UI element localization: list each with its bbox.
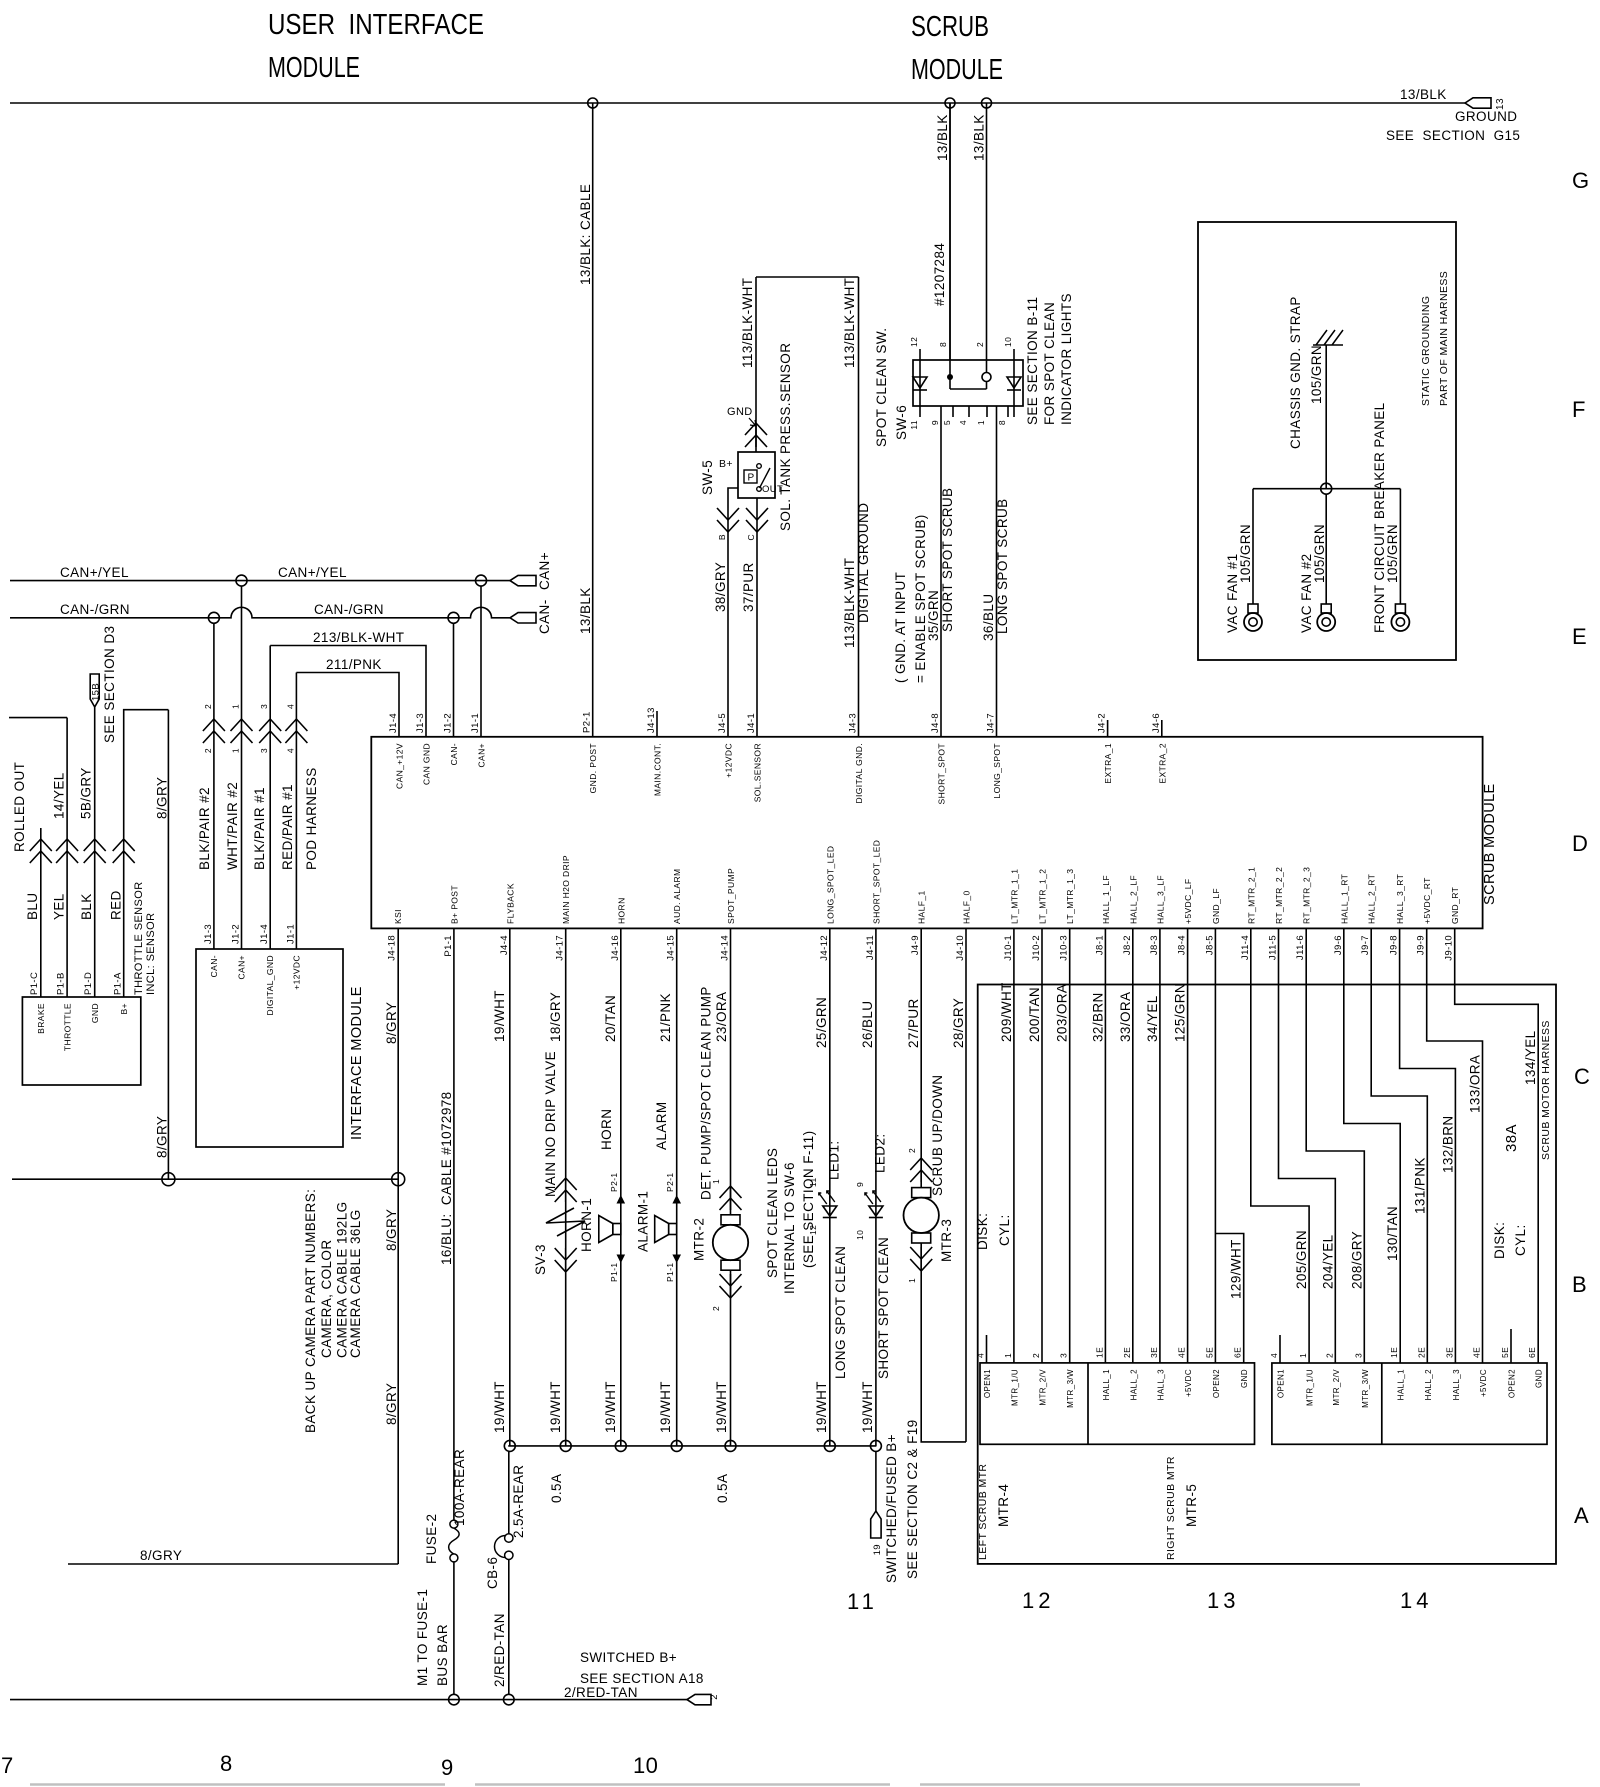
SW-6 pin 10 stub (1013, 349, 1015, 360)
diode SW-6 left (919, 360, 921, 417)
svg-text:8: 8 (997, 420, 1007, 425)
svg-text:13/BLK: CABLE: 13/BLK: CABLE (578, 184, 593, 285)
svg-text:B+ POST: B+ POST (449, 885, 459, 924)
svg-text:13/BLK: 13/BLK (972, 114, 987, 161)
svg-text:SHORT_SPOT: SHORT_SPOT (937, 743, 947, 804)
svg-text:6E: 6E (1233, 1347, 1243, 1358)
svg-text:BLK/PAIR #1: BLK/PAIR #1 (252, 787, 267, 870)
junction bus cb6 (504, 1694, 515, 1705)
svg-text:38A: 38A (1503, 1124, 1520, 1152)
wire 16/BLU cable (453, 929, 455, 1520)
chassis grounding box (1198, 222, 1456, 660)
svg-text:SHORT SPOT SCRUB: SHORT SPOT SCRUB (940, 488, 955, 632)
svg-text:37/PUR: 37/PUR (741, 562, 756, 612)
svg-text:P1-B: P1-B (56, 972, 67, 995)
svg-text:CAN-: CAN- (537, 599, 552, 634)
svg-text:DIGITAL_GND: DIGITAL_GND (265, 955, 275, 1015)
svg-text:14/YEL: 14/YEL (52, 772, 67, 819)
svg-text:J4-7: J4-7 (986, 713, 997, 733)
fuse FUSE-2 (450, 1520, 458, 1528)
SW-6 internal node open (982, 373, 991, 382)
throttle sensor box (22, 997, 140, 1085)
svg-text:HALL_1_RT: HALL_1_RT (1339, 874, 1349, 924)
svg-text:4E: 4E (1177, 1347, 1187, 1358)
speaker HORN-1 (613, 1224, 621, 1235)
svg-text:19/WHT: 19/WHT (492, 1381, 507, 1433)
svg-text:19: 19 (872, 1544, 883, 1555)
svg-text:SEE SECTION A18: SEE SECTION A18 (580, 1671, 704, 1686)
wire drop VAC FAN 2 (1325, 494, 1327, 604)
svg-text:P2-1: P2-1 (609, 1172, 619, 1192)
svg-text:J4-13: J4-13 (646, 707, 657, 733)
svg-text:P2-1: P2-1 (582, 711, 593, 733)
junction top bus at GND POST wire (588, 98, 598, 108)
junction bus sv3 (560, 1440, 571, 1451)
svg-text:SHORT SPOT CLEAN: SHORT SPOT CLEAN (876, 1237, 891, 1379)
junction bus horn (615, 1440, 626, 1451)
svg-text:MTR_1/U: MTR_1/U (1306, 1369, 1315, 1406)
switch SW-5 box (738, 452, 775, 498)
svg-text:HALL_1: HALL_1 (1397, 1369, 1406, 1400)
svg-text:19/WHT: 19/WHT (603, 1381, 618, 1433)
svg-text:HALL_2: HALL_2 (1129, 1369, 1138, 1400)
svg-text:8/GRY: 8/GRY (155, 777, 170, 819)
junction CAN+ left (236, 575, 247, 586)
wire 8/GRY KSI vertical (397, 929, 399, 1564)
svg-text:19/WHT: 19/WHT (860, 1381, 875, 1433)
svg-text:CAMERA CABLE 36LG: CAMERA CABLE 36LG (348, 1209, 363, 1358)
svg-text:2: 2 (975, 342, 985, 347)
svg-text:19/WHT: 19/WHT (492, 990, 507, 1042)
svg-text:J11-4: J11-4 (1240, 935, 1251, 960)
svg-text:130/TAN: 130/TAN (1385, 1206, 1400, 1261)
svg-text:CAN+: CAN+ (477, 743, 487, 768)
svg-text:4: 4 (976, 1353, 986, 1358)
svg-text:2E: 2E (1122, 1347, 1132, 1358)
svg-text:ALARM: ALARM (654, 1101, 669, 1150)
svg-text:J4-8: J4-8 (930, 713, 941, 733)
svg-text:J4-10: J4-10 (955, 935, 966, 961)
stub OPEN1 MTR-5 (1279, 1335, 1281, 1363)
wire pod pair2 wht (241, 586, 243, 719)
svg-text:8/GRY: 8/GRY (155, 1116, 170, 1158)
junction bus flyback (504, 1440, 515, 1451)
svg-text:J4-17: J4-17 (555, 935, 566, 961)
svg-text:3: 3 (1059, 1353, 1069, 1358)
svg-text:J10-2: J10-2 (1031, 935, 1042, 961)
svg-text:2: 2 (711, 1306, 721, 1311)
svg-text:4: 4 (286, 748, 296, 753)
svg-text:HALL_2_RT: HALL_2_RT (1367, 874, 1377, 924)
wire 113/BLK-WHT top link (756, 276, 859, 278)
svg-text:BLK: BLK (79, 893, 94, 920)
svg-text:2: 2 (1324, 1353, 1334, 1358)
svg-text:+5VDC_RT: +5VDC_RT (1422, 877, 1432, 924)
svg-text:HALL_1_LF: HALL_1_LF (1101, 875, 1111, 924)
wire 125/GRN to MTR-4 (1187, 929, 1189, 1363)
bottom border dashed line (30, 1783, 1360, 1786)
svg-text:SEE SECTION C2 & F19: SEE SECTION C2 & F19 (905, 1419, 920, 1579)
wire 32/BRN to MTR-4 (1104, 929, 1106, 1363)
connector box MTR-4 (980, 1363, 1255, 1444)
svg-text:MTR-5: MTR-5 (1184, 1484, 1199, 1527)
svg-text:GND: GND (90, 1003, 100, 1023)
svg-text:2/RED-TAN: 2/RED-TAN (492, 1613, 507, 1687)
led LED1 (823, 1206, 837, 1216)
scrub module box (371, 737, 1482, 929)
svg-text:P1-1: P1-1 (609, 1262, 619, 1282)
wire 13/BLK to SW-6 pin 8 (949, 103, 951, 360)
wire CAN-/GRN horizontal with hops (10, 607, 510, 618)
svg-text:HALF_0: HALF_0 (962, 890, 972, 924)
svg-text:J8-1: J8-1 (1094, 935, 1105, 955)
svg-text:13: 13 (1207, 1588, 1239, 1613)
svg-text:200/TAN: 200/TAN (1027, 987, 1042, 1042)
svg-text:E: E (1572, 624, 1587, 649)
svg-text:J4-9: J4-9 (910, 935, 921, 955)
svg-text:CAN-: CAN- (209, 955, 219, 977)
junction bus alarm (671, 1440, 682, 1451)
svg-text:HALL_2_LF: HALL_2_LF (1128, 875, 1138, 924)
svg-text:OPEN2: OPEN2 (1508, 1369, 1517, 1398)
chevron SV-3 top (555, 1178, 577, 1202)
svg-text:FOR SPOT CLEAN: FOR SPOT CLEAN (1042, 302, 1057, 425)
svg-text:3: 3 (1353, 1353, 1363, 1358)
SW-6 internal node filled (947, 374, 953, 380)
svg-text:HALL_3_LF: HALL_3_LF (1155, 875, 1165, 924)
svg-text:HALL_1: HALL_1 (1102, 1369, 1111, 1400)
svg-text:10: 10 (633, 1753, 658, 1778)
motor MTR-2 (721, 1215, 740, 1225)
svg-text:23/ORA: 23/ORA (714, 992, 729, 1042)
svg-text:BLK/PAIR #2: BLK/PAIR #2 (197, 787, 212, 870)
svg-text:BRAKE: BRAKE (36, 1003, 46, 1034)
svg-text:+5VDC: +5VDC (1184, 1369, 1193, 1397)
junction chassis ground node (1321, 483, 1332, 494)
svg-text:J4-1: J4-1 (746, 713, 757, 733)
wire 132/BRN step (1400, 929, 1456, 1363)
svg-text:#1207284: #1207284 (932, 243, 947, 306)
svg-text:J4-16: J4-16 (610, 935, 621, 961)
wire 8/GRY long vertical (167, 710, 169, 1179)
wire 33/ORA to MTR-4 (1132, 929, 1134, 1363)
svg-text:CAN-/GRN: CAN-/GRN (314, 602, 384, 617)
svg-text:CYL:: CYL: (997, 1214, 1012, 1246)
junction 8/GRY mid left (162, 1173, 175, 1186)
SW-6 bottom stub pin4 (968, 406, 970, 417)
svg-text:CYL:: CYL: (1513, 1224, 1528, 1256)
svg-text:LONG SPOT CLEAN: LONG SPOT CLEAN (833, 1246, 848, 1379)
svg-text:11: 11 (847, 1589, 878, 1614)
svg-text:HALL_3: HALL_3 (1156, 1369, 1165, 1400)
SW-6 bottom stub pin5 (952, 406, 954, 417)
svg-text:J11-5: J11-5 (1268, 935, 1279, 960)
ring terminal VAC FAN 1 (1248, 604, 1258, 613)
svg-text:HORN: HORN (599, 1109, 614, 1150)
svg-text:MTR_2/V: MTR_2/V (1039, 1369, 1048, 1406)
svg-text:7: 7 (1, 1753, 14, 1778)
svg-text:9: 9 (855, 1182, 865, 1187)
svg-text:BACK UP CAMERA PART NUMBERS:: BACK UP CAMERA PART NUMBERS: (303, 1189, 318, 1433)
SW-6 bottom stub pin8b (1007, 406, 1009, 417)
svg-text:LT_MTR_1_2: LT_MTR_1_2 (1038, 869, 1048, 924)
svg-text:8/GRY: 8/GRY (384, 1383, 399, 1425)
svg-text:1: 1 (711, 1179, 721, 1184)
svg-text:HALL_3_RT: HALL_3_RT (1395, 874, 1405, 924)
svg-text:132/BRN: 132/BRN (1440, 1115, 1455, 1173)
wire 38/GRY to J4-5 (727, 532, 729, 737)
wire pod pair2 blk (213, 623, 215, 719)
svg-text:J9-9: J9-9 (1416, 935, 1427, 955)
svg-text:J9-8: J9-8 (1389, 935, 1400, 955)
svg-text:EXTRA_1: EXTRA_1 (1103, 743, 1113, 784)
solenoid valve SV-3 zigzag (546, 1208, 585, 1236)
chevron MTR-3 bottom (910, 1247, 932, 1271)
speaker ALARM-1 (669, 1224, 677, 1235)
svg-text:2: 2 (1031, 1353, 1041, 1358)
svg-text:SEE SECTION G15: SEE SECTION G15 (1386, 128, 1520, 143)
wire pod red upper (124, 710, 169, 839)
chevron SW-5 out B (717, 508, 739, 532)
SW-6 bottom stub pin1 (986, 406, 988, 417)
svg-text:DIGITAL GND.: DIGITAL GND. (854, 743, 864, 804)
svg-text:2/RED-TAN: 2/RED-TAN (564, 1685, 638, 1700)
svg-text:8/GRY: 8/GRY (384, 1002, 399, 1044)
svg-text:M1 TO FUSE-1: M1 TO FUSE-1 (415, 1589, 430, 1686)
svg-text:8/GRY: 8/GRY (140, 1548, 182, 1563)
wire 130/TAN step (1344, 929, 1400, 1363)
svg-text:36/BLU: 36/BLU (981, 594, 996, 641)
svg-text:105/GRN: 105/GRN (1385, 524, 1400, 583)
svg-text:19/WHT: 19/WHT (658, 1381, 673, 1433)
svg-text:P2-1: P2-1 (665, 1172, 675, 1192)
stub OPEN1 MTR-4 (986, 1335, 988, 1363)
svg-text:J8-4: J8-4 (1177, 935, 1188, 955)
svg-text:J8-2: J8-2 (1122, 935, 1133, 955)
svg-text:SV-3: SV-3 (533, 1244, 548, 1275)
connector flag GROUND 13 (1465, 98, 1491, 108)
svg-text:19/WHT: 19/WHT (714, 1381, 729, 1433)
svg-text:SCRUB: SCRUB (911, 11, 989, 43)
wire SPOT_PUMP 23/ORA (730, 929, 732, 1215)
wire pod blu (40, 828, 42, 839)
connector CAN+ flag (510, 575, 536, 585)
wire 129/WHT step (1215, 1234, 1243, 1364)
wire pod blk (94, 707, 96, 839)
svg-text:CAN+: CAN+ (237, 955, 247, 980)
svg-text:CAN+: CAN+ (537, 552, 552, 590)
svg-text:J9-7: J9-7 (1360, 935, 1371, 955)
junction bus fuse2 (449, 1694, 460, 1705)
svg-text:+5VDC: +5VDC (1479, 1369, 1488, 1397)
chevron SW-5 out C (746, 508, 768, 532)
svg-text:204/YEL: 204/YEL (1320, 1234, 1335, 1289)
svg-text:EXTRA_2: EXTRA_2 (1157, 743, 1167, 784)
svg-text:GND: GND (1535, 1369, 1544, 1388)
svg-text:J1-1: J1-1 (286, 924, 297, 944)
svg-text:21/PNK: 21/PNK (658, 993, 673, 1042)
svg-text:1: 1 (1298, 1353, 1308, 1358)
wire SW-5 B branch (728, 488, 738, 508)
svg-text:SEE SECTION B-11: SEE SECTION B-11 (1025, 297, 1040, 425)
wire CB-6 lower (508, 1560, 510, 1695)
svg-text:+5VDC_LF: +5VDC_LF (1183, 879, 1193, 924)
svg-text:38/GRY: 38/GRY (713, 562, 728, 612)
svg-text:LONG_SPOT_LED: LONG_SPOT_LED (825, 846, 835, 924)
junction top bus at SW-6 wire 2 (982, 98, 992, 108)
wire 8/GRY bottom horizontal (68, 1563, 398, 1565)
svg-text:113/BLK-WHT: 113/BLK-WHT (842, 558, 857, 648)
chevron MTR-2 bottom (720, 1274, 742, 1298)
svg-text:CAN GND: CAN GND (422, 743, 432, 785)
svg-text:213/BLK-WHT: 213/BLK-WHT (313, 630, 404, 645)
svg-text:J1-1: J1-1 (470, 713, 481, 733)
interface module box (196, 949, 343, 1147)
svg-text:YEL: YEL (52, 893, 67, 920)
svg-text:RED/PAIR #1: RED/PAIR #1 (280, 784, 295, 870)
wire 213/BLK-WHT (270, 646, 426, 738)
wire GND POST 13/BLK cable (592, 103, 594, 737)
svg-text:J9-10: J9-10 (1444, 935, 1455, 961)
svg-text:133/ORA: 133/ORA (1468, 1055, 1483, 1113)
svg-text:GND. POST: GND. POST (588, 743, 598, 793)
svg-text:9: 9 (930, 420, 940, 425)
svg-text:5: 5 (942, 420, 952, 425)
svg-text:HORN: HORN (616, 897, 626, 924)
svg-text:GND: GND (1240, 1369, 1249, 1388)
stub OPEN2 MTR-5 (1510, 1329, 1512, 1363)
svg-text:SEE SECTION D3: SEE SECTION D3 (102, 626, 117, 743)
svg-text:4: 4 (1269, 1353, 1279, 1358)
svg-text:3E: 3E (1149, 1347, 1159, 1358)
ring terminal VAC FAN 2 (1321, 604, 1331, 613)
svg-text:RIGHT SCRUB MTR: RIGHT SCRUB MTR (1165, 1456, 1177, 1560)
svg-text:4: 4 (958, 420, 968, 425)
svg-text:THROTTLE SENSOR: THROTTLE SENSOR (133, 881, 145, 995)
svg-text:13/BLK: 13/BLK (935, 114, 950, 161)
svg-text:8: 8 (220, 1751, 233, 1776)
wire drop VAC FAN 1 (1252, 489, 1254, 604)
svg-text:SCRUB MOTOR HARNESS: SCRUB MOTOR HARNESS (1540, 1020, 1552, 1160)
svg-text:33/ORA: 33/ORA (1118, 992, 1133, 1042)
svg-text:OPEN2: OPEN2 (1212, 1369, 1221, 1398)
svg-text:MTR_3/W: MTR_3/W (1361, 1369, 1370, 1408)
SW-5 contact (757, 464, 762, 469)
svg-text:J11-6: J11-6 (1295, 935, 1306, 960)
connector CAN- flag (510, 613, 536, 623)
svg-text:MODULE: MODULE (911, 54, 1003, 86)
svg-text:J1-3: J1-3 (415, 713, 426, 733)
svg-text:209/WHT: 209/WHT (999, 982, 1014, 1042)
svg-text:0.5A: 0.5A (715, 1474, 730, 1503)
svg-text:SCRUB MODULE: SCRUB MODULE (1482, 783, 1498, 905)
wire 211/PNK (296, 673, 399, 738)
svg-text:100A-REAR: 100A-REAR (452, 1449, 467, 1526)
svg-text:( GND. AT INPUT: ( GND. AT INPUT (893, 572, 908, 683)
wire 209/WHT to MTR-4 (1013, 929, 1015, 1363)
svg-text:G: G (1572, 168, 1590, 193)
svg-text:DIGITAL GROUND: DIGITAL GROUND (856, 503, 871, 623)
svg-text:25/GRN: 25/GRN (814, 997, 829, 1048)
svg-text:CAN-: CAN- (449, 743, 459, 765)
svg-text:20/TAN: 20/TAN (603, 995, 618, 1042)
wire pod pair1 blk (269, 646, 271, 720)
svg-text:MTR_3/W: MTR_3/W (1066, 1369, 1075, 1408)
svg-text:B+: B+ (119, 1003, 129, 1014)
svg-text:BLU: BLU (25, 893, 40, 920)
svg-text:J4-5: J4-5 (717, 713, 728, 733)
svg-text:1: 1 (907, 1278, 917, 1283)
svg-text:15B: 15B (91, 683, 102, 701)
junction CAN- left (208, 612, 219, 623)
svg-text:RT_MTR_2_1: RT_MTR_2_1 (1246, 867, 1256, 924)
svg-text:MTR-2: MTR-2 (692, 1218, 707, 1261)
svg-text:A: A (1574, 1503, 1589, 1528)
wire ALARM 21/PNK (676, 929, 678, 1446)
switch SW-6 box (913, 360, 1023, 406)
chassis ground strap symbol (1313, 330, 1343, 345)
svg-text:9: 9 (441, 1755, 454, 1780)
svg-text:+12VDC: +12VDC (292, 955, 302, 990)
svg-text:MAIN NO DRIP VALVE: MAIN NO DRIP VALVE (543, 1051, 558, 1197)
svg-text:1: 1 (1003, 1353, 1013, 1358)
svg-text:CB-6: CB-6 (485, 1557, 500, 1589)
svg-text:208/GRY: 208/GRY (1349, 1231, 1364, 1289)
svg-text:LT_MTR_1_1: LT_MTR_1_1 (1009, 869, 1019, 924)
svg-text:SPOT_PUMP: SPOT_PUMP (726, 868, 736, 924)
svg-text:RED: RED (109, 890, 124, 920)
svg-text:J4-11: J4-11 (865, 935, 876, 960)
svg-text:2: 2 (203, 748, 213, 753)
svg-text:J1-3: J1-3 (203, 924, 214, 944)
svg-text:16/BLU: CABLE #1072978: 16/BLU: CABLE #1072978 (439, 1091, 454, 1265)
svg-text:INCL: SENSOR: INCL: SENSOR (145, 913, 157, 995)
svg-text:J8-3: J8-3 (1149, 935, 1160, 955)
svg-text:J1-4: J1-4 (259, 924, 270, 944)
svg-text:J1-2: J1-2 (231, 924, 242, 944)
motor MTR-3 (912, 1188, 931, 1198)
wire HALF_1 27/PUR (920, 929, 922, 1188)
svg-text:WHT/PAIR #2: WHT/PAIR #2 (225, 782, 240, 870)
junction bus led1 (824, 1440, 835, 1451)
svg-text:GND_LF: GND_LF (1211, 888, 1221, 924)
wire 208/GRY step (1306, 929, 1364, 1363)
svg-text:J4-6: J4-6 (1151, 713, 1162, 733)
wire pod yel upper (66, 718, 68, 839)
junction CAN+ right (476, 575, 487, 586)
svg-text:14: 14 (1400, 1588, 1432, 1613)
svg-text:12: 12 (909, 337, 919, 347)
svg-text:131/PNK: 131/PNK (1412, 1157, 1427, 1214)
svg-text:CHASSIS GND. STRAP: CHASSIS GND. STRAP (1288, 296, 1303, 449)
svg-text:3: 3 (259, 704, 269, 709)
svg-text:GND: GND (727, 406, 753, 418)
svg-text:SW-6: SW-6 (894, 405, 909, 440)
wire CAN- drop to J1-2 (453, 623, 455, 737)
SW-6 internal link (950, 388, 987, 390)
chevron SV-3 bottom (555, 1248, 577, 1272)
junction bus mtr2 (725, 1440, 736, 1451)
svg-text:32/BRN: 32/BRN (1090, 992, 1105, 1042)
wire 37/PUR to J4-1 (756, 532, 758, 737)
svg-text:18/GRY: 18/GRY (548, 992, 563, 1042)
svg-text:1: 1 (231, 748, 241, 753)
svg-text:2E: 2E (1416, 1347, 1426, 1358)
svg-text:USER INTERFACE: USER INTERFACE (268, 9, 484, 41)
wire HORN 20/TAN (620, 929, 622, 1446)
junction 8/GRY mid right (392, 1173, 405, 1186)
svg-text:13/BLK: 13/BLK (1400, 87, 1447, 102)
